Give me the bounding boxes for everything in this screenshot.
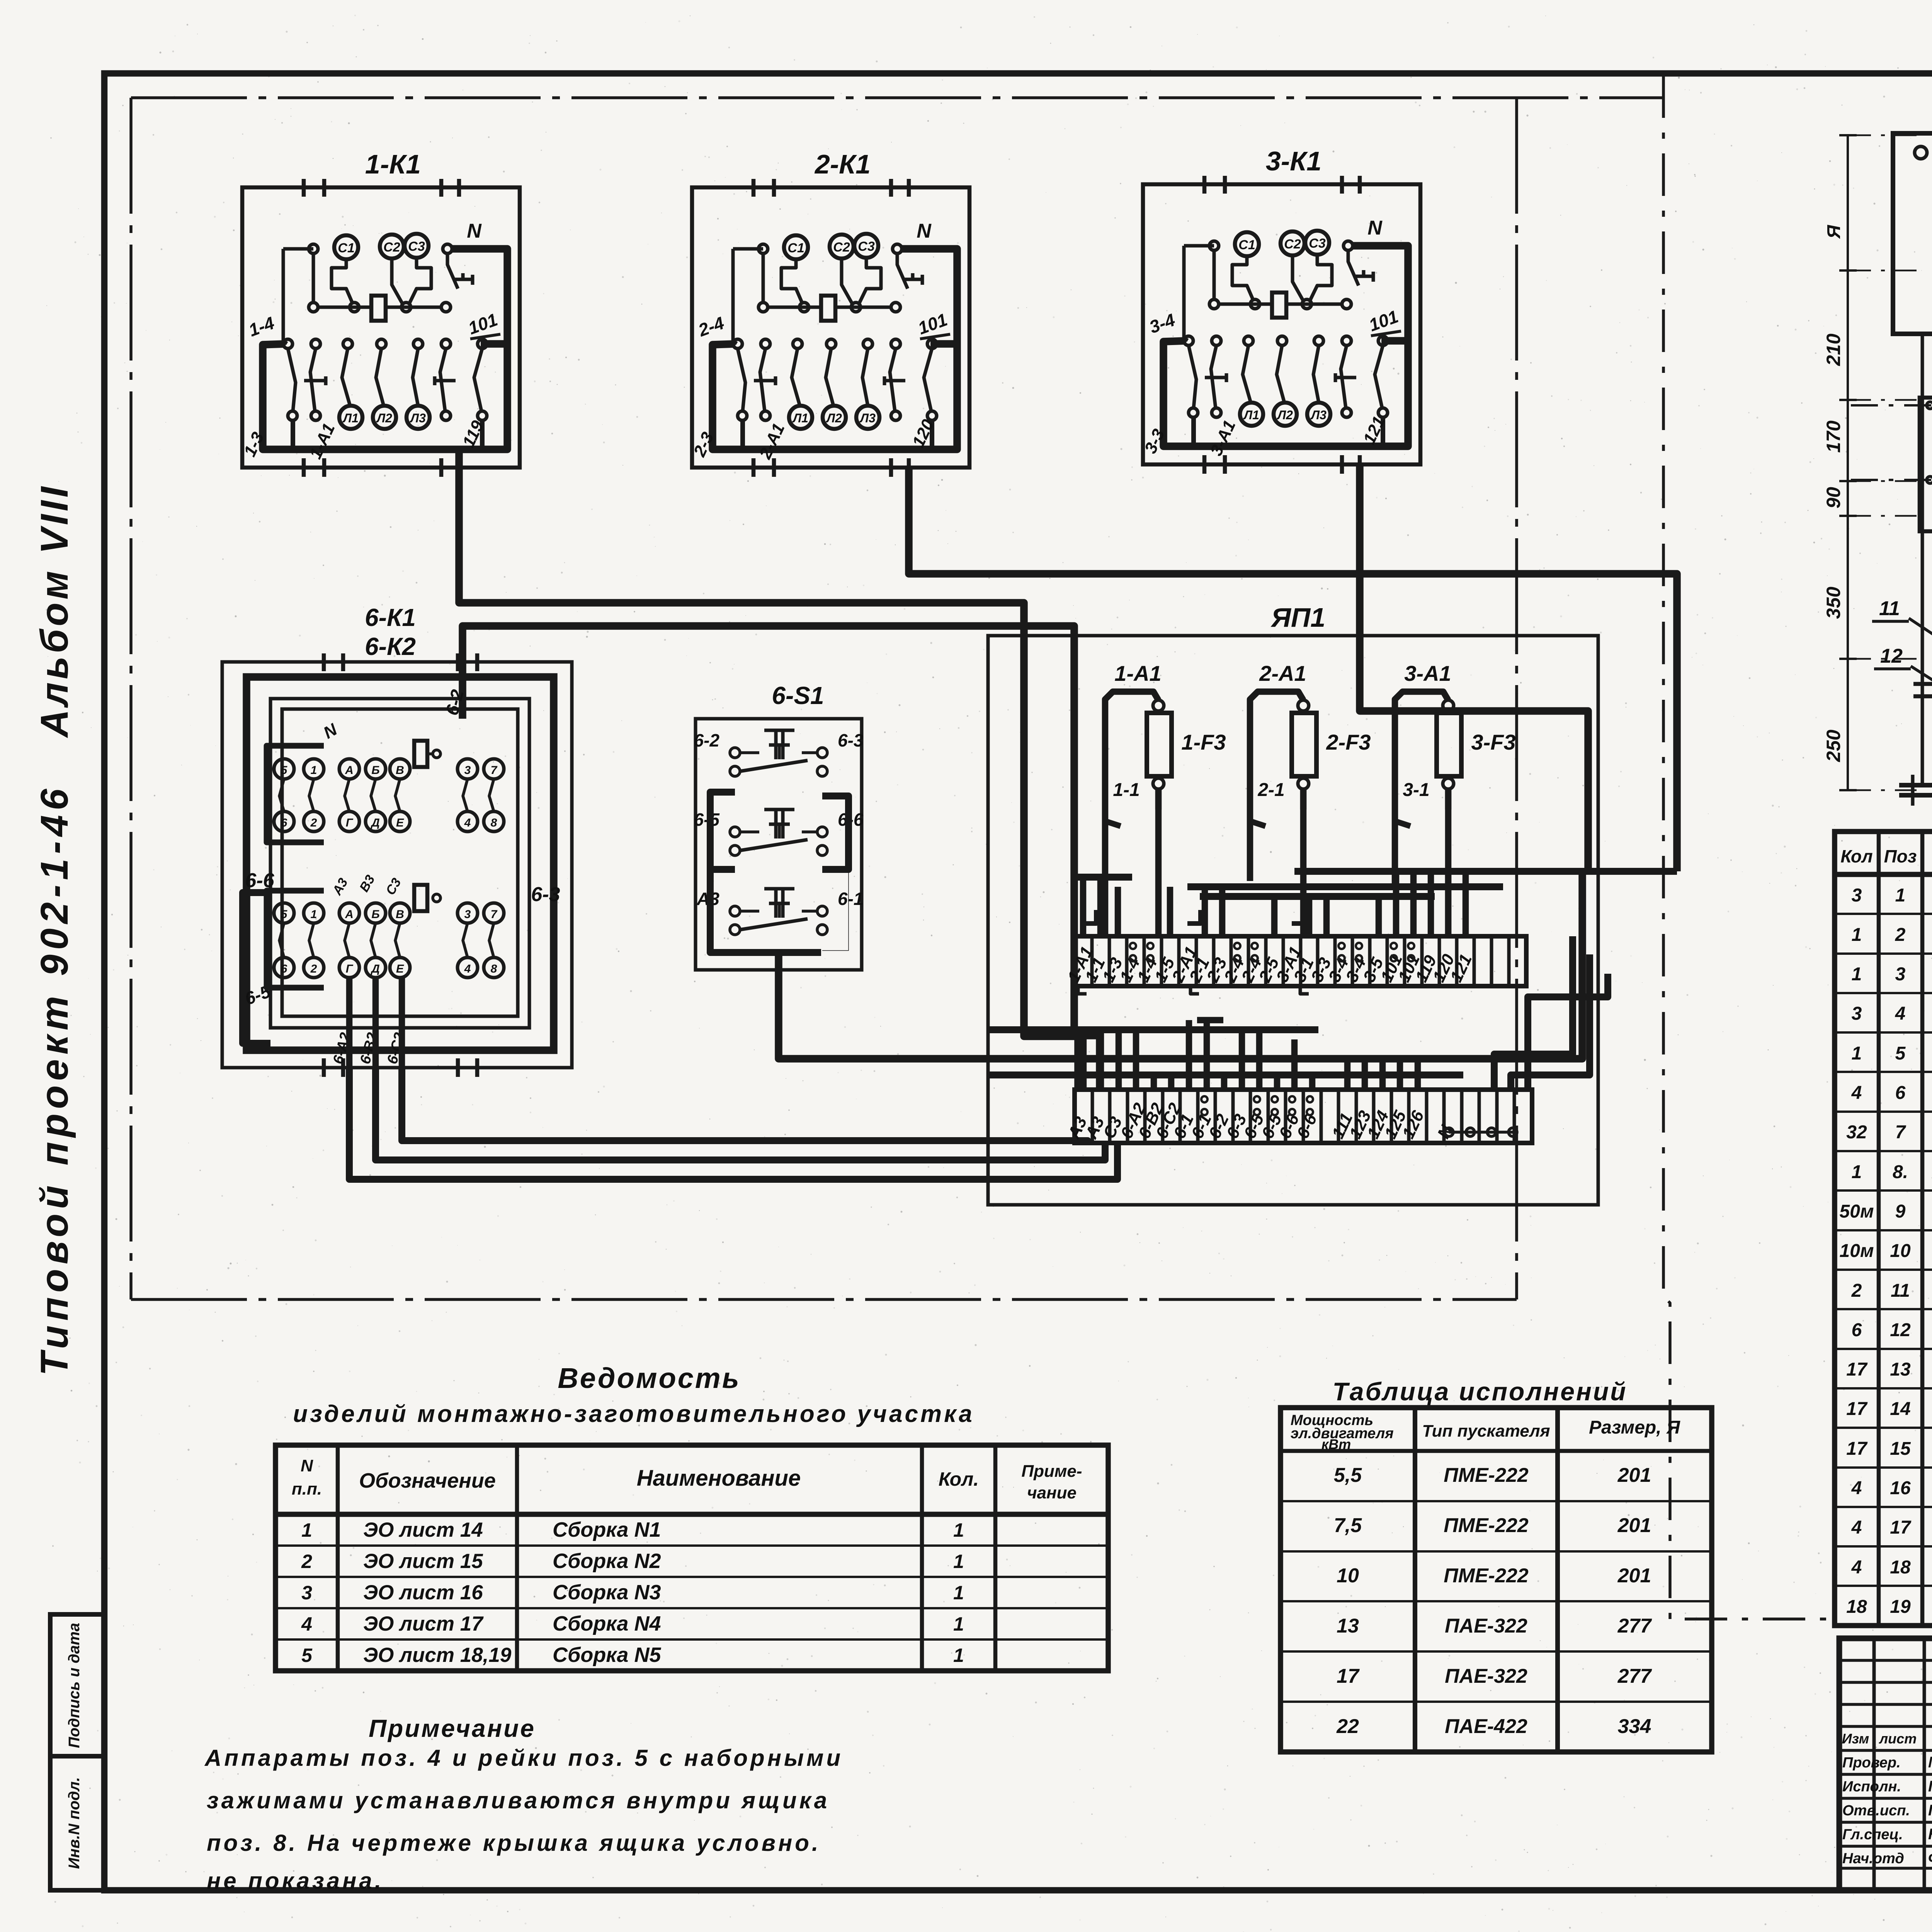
svg-text:1: 1 [953,1645,964,1666]
svg-text:18: 18 [1846,1597,1867,1617]
svg-text:2: 2 [310,963,317,975]
svg-text:2: 2 [301,1551,312,1572]
svg-text:Сборка N1: Сборка N1 [553,1518,661,1541]
auxiliary contact N of 2-К1 [897,253,908,289]
wire bus group lower [988,936,1608,1090]
svg-text:Сборка N4: Сборка N4 [553,1612,661,1635]
svg-text:Фролов: Фролов [1928,1850,1932,1867]
wires fuses to terminal strip [1105,789,1448,936]
svg-text:ПМЕ-222: ПМЕ-222 [1444,1514,1529,1537]
svg-text:Г: Г [346,963,354,975]
magnetic starter 6-К1 6-К2 [222,604,572,1077]
svg-text:В: В [396,764,404,777]
svg-text:6: 6 [281,816,287,829]
phase terminals С1 С2 С3 of 1-К1 [334,235,358,259]
svg-text:5: 5 [281,908,288,921]
svg-text:4: 4 [1895,1003,1906,1024]
svg-text:201: 201 [1617,1514,1651,1537]
phase terminals С1 С2 С3 of 3-К1 [1235,232,1259,256]
svg-text:210: 210 [1823,333,1844,366]
magnetic starter 2-К1 [690,149,969,477]
magnetic starter 3-К1 [1141,146,1420,474]
svg-text:6: 6 [281,963,287,975]
svg-text:1-А1: 1-А1 [1114,661,1161,685]
svg-text:Размер, Я: Размер, Я [1589,1417,1680,1438]
svg-text:13: 13 [1890,1359,1911,1380]
svg-text:Тип пускателя: Тип пускателя [1422,1422,1550,1440]
svg-text:Л1: Л1 [342,411,359,425]
svg-text:С2: С2 [1284,237,1301,252]
svg-text:1: 1 [1852,1043,1862,1064]
svg-text:4: 4 [1851,1517,1862,1538]
svg-text:Обозначение: Обозначение [359,1469,496,1492]
svg-text:Приме-: Приме- [1021,1462,1082,1481]
magnetic starter 1-К1 [240,149,520,477]
svg-text:ЯП1: ЯП1 [1270,602,1325,633]
internal bus wire of 3-К1 [1163,246,1408,446]
svg-text:Типовой проект 902-1-46: Типовой проект 902-1-46 [33,784,76,1376]
svg-text:277: 277 [1617,1615,1652,1637]
svg-text:2-1: 2-1 [1257,780,1284,800]
svg-text:Л3: Л3 [410,411,426,425]
svg-text:Подпись и дата: Подпись и дата [66,1623,83,1748]
svg-text:17: 17 [1846,1359,1868,1380]
svg-text:ЭО лист 18,19: ЭО лист 18,19 [363,1644,512,1667]
svg-text:Б: Б [371,764,379,777]
svg-text:11: 11 [1879,597,1900,620]
coil 6-К2 [414,885,427,911]
coil of contactor 3-К1 [1272,293,1286,318]
coil of contactor 2-К1 [821,296,835,321]
svg-text:1-К1: 1-К1 [365,149,421,179]
schematic area frame [131,98,1663,1299]
svg-text:6: 6 [1852,1320,1862,1340]
upper contact group 6-К1 [274,759,294,779]
svg-text:12: 12 [1890,1320,1911,1340]
svg-text:7,5: 7,5 [1334,1514,1362,1537]
svg-text:3: 3 [1852,1003,1862,1024]
svg-text:С2: С2 [833,240,850,255]
assembly view starter boxes [1893,133,1932,334]
svg-text:2-К1: 2-К1 [814,149,871,179]
svg-text:2: 2 [1851,1281,1862,1301]
svg-text:5: 5 [281,764,288,777]
svg-text:Сборка N3: Сборка N3 [553,1581,661,1604]
svg-text:4: 4 [1851,1083,1862,1103]
svg-text:6-3: 6-3 [531,883,560,906]
internal bus wire of 1-К1 [263,249,507,449]
left margin stamp boxes [50,1614,104,1890]
svg-text:Л1: Л1 [1243,408,1259,422]
svg-text:12: 12 [1880,645,1903,667]
svg-text:С1: С1 [338,241,354,255]
svg-text:16: 16 [1890,1478,1911,1498]
svg-text:3: 3 [1895,964,1906,985]
svg-text:3-1: 3-1 [1403,780,1429,800]
fuse 1-F3 [1105,661,1226,826]
fuse 3-F3 [1395,661,1516,826]
svg-text:1: 1 [953,1582,964,1604]
svg-text:Педан: Педан [1928,1778,1932,1795]
svg-text:зажимами устанавливаются вну: зажимами устанавливаются внутри ящика [207,1787,830,1813]
terminal strip XT1 [1064,936,1526,994]
wire bus group upper [1074,871,1677,936]
versions table [1281,1408,1712,1752]
svg-text:1: 1 [1852,925,1862,945]
svg-text:17: 17 [1337,1665,1360,1687]
svg-text:А: А [345,908,354,921]
mounting rails [1899,330,1932,806]
svg-text:С3: С3 [858,239,875,254]
svg-text:кВт: кВт [1321,1436,1351,1452]
svg-text:Нач.отд: Нач.отд [1842,1850,1904,1867]
svg-text:не показана.: не показана. [207,1868,384,1894]
svg-text:201: 201 [1617,1565,1651,1587]
svg-text:Пономарева: Пономарева [1928,1802,1932,1819]
svg-text:лист: лист [1879,1731,1917,1747]
svg-text:Наименование: Наименование [637,1466,801,1491]
svg-text:Б: Б [371,908,379,921]
svg-text:ПМЕ-222: ПМЕ-222 [1444,1565,1529,1587]
wire segments inside 3-К1 [1184,244,1214,248]
svg-text:поз. 8. На чертеже крышка: поз. 8. На чертеже крышка ящика условно. [207,1830,821,1856]
svg-text:4: 4 [301,1613,312,1635]
svg-text:Л1: Л1 [792,411,808,425]
svg-text:Провер.: Провер. [1842,1755,1901,1771]
svg-text:50м: 50м [1840,1201,1874,1222]
auxiliary contact N of 1-К1 [447,253,458,289]
svg-text:13: 13 [1337,1615,1359,1637]
svg-text:ПМЕ-222: ПМЕ-222 [1444,1464,1529,1486]
svg-text:А: А [345,764,354,777]
wires 6-К1 to terminal strip lower [349,1068,1117,1179]
svg-text:Л2: Л2 [1277,408,1293,422]
svg-text:4: 4 [464,963,471,975]
svg-text:Исполн.: Исполн. [1842,1779,1901,1795]
svg-text:3: 3 [1852,885,1862,906]
list of assembly products title [293,1362,975,1427]
svg-text:Кол.: Кол. [939,1468,979,1490]
svg-text:Поз: Поз [1884,846,1917,866]
svg-text:17: 17 [1890,1517,1912,1538]
svg-text:22: 22 [1336,1715,1359,1738]
svg-text:6-3: 6-3 [838,730,864,750]
svg-text:32: 32 [1846,1122,1867,1143]
svg-text:5,5: 5,5 [1334,1464,1362,1486]
box 6-К1 6-К2 front [1851,398,1932,531]
svg-text:9: 9 [1895,1201,1906,1222]
parts list table [1835,832,1932,1626]
section separation dash-dot line [1663,75,1835,1619]
svg-text:Отв.исп.: Отв.исп. [1842,1803,1910,1819]
svg-text:6-К1: 6-К1 [365,604,416,631]
svg-text:чание: чание [1027,1483,1077,1502]
svg-text:3: 3 [464,764,471,777]
svg-text:1: 1 [311,908,317,921]
push button contacts 6-2 6-3 [774,730,778,759]
svg-text:ЭО лист 15: ЭО лист 15 [363,1550,483,1573]
svg-text:7: 7 [491,908,498,921]
svg-text:Сборка N2: Сборка N2 [553,1549,661,1573]
svg-text:С1: С1 [787,241,804,255]
svg-text:1: 1 [953,1551,964,1572]
svg-text:4: 4 [1851,1557,1862,1578]
svg-text:N: N [917,220,932,242]
lamps Л1 Л2 Л3 of 2-К1 [789,406,812,429]
svg-text:8.: 8. [1893,1162,1908,1182]
svg-text:6-1: 6-1 [838,889,863,909]
svg-text:6: 6 [1895,1083,1906,1103]
svg-text:В: В [396,908,404,921]
pull box ЯП1 [988,602,1598,1205]
coil 6-К1 [414,741,427,767]
lamps Л1 Л2 Л3 of 3-К1 [1240,403,1263,426]
svg-text:ПАЕ-322: ПАЕ-322 [1445,1615,1527,1637]
svg-text:Л3: Л3 [1310,408,1327,422]
svg-text:1: 1 [311,764,317,777]
svg-text:Казаров: Казаров [1928,1826,1932,1843]
svg-text:10м: 10м [1840,1241,1874,1261]
wire segments inside 1-К1 [283,247,313,251]
fuse 2-F3 [1250,661,1371,826]
svg-text:8: 8 [491,816,497,829]
svg-text:п.п.: п.п. [292,1480,322,1498]
svg-text:2-F3: 2-F3 [1326,730,1371,754]
svg-text:3: 3 [464,908,471,921]
svg-text:Кол: Кол [1840,846,1872,866]
svg-text:3-К1: 3-К1 [1266,146,1321,176]
svg-text:С3: С3 [408,239,425,254]
svg-text:4: 4 [464,816,471,829]
svg-text:1-F3: 1-F3 [1181,730,1226,754]
internal bus wire of 2-К1 [713,249,957,449]
svg-text:Я: Я [1824,225,1844,240]
svg-text:90: 90 [1823,487,1844,509]
left margin vertical text [33,484,76,1376]
svg-text:Мизяк: Мизяк [1928,1754,1932,1771]
svg-text:19: 19 [1890,1597,1911,1617]
svg-text:250: 250 [1823,730,1844,762]
svg-text:18: 18 [1890,1557,1911,1578]
wire 1-К1 to assembly ЯП1 [459,449,1078,1090]
svg-text:ПАЕ-422: ПАЕ-422 [1445,1715,1527,1738]
svg-text:14: 14 [1890,1399,1910,1419]
svg-text:Д: Д [370,963,380,975]
svg-text:Примечание: Примечание [369,1714,536,1742]
svg-text:2: 2 [1895,925,1906,945]
coil of contactor 1-К1 [371,296,386,321]
svg-text:ЭО лист 16: ЭО лист 16 [363,1581,483,1604]
main contacts of 3-К1 [1184,336,1193,345]
svg-text:Д: Д [370,816,380,829]
svg-text:7: 7 [491,764,498,777]
list of assembly products table [276,1445,1108,1671]
svg-text:Г: Г [346,816,354,829]
svg-text:Ведомость: Ведомость [558,1362,740,1394]
svg-text:Сборка N5: Сборка N5 [553,1643,661,1667]
svg-text:3-F3: 3-F3 [1471,730,1515,754]
svg-text:15: 15 [1890,1439,1911,1459]
svg-text:Аппараты поз. 4 и рейки по: Аппараты поз. 4 и рейки поз. 5 с наборны… [204,1745,843,1771]
lamps Л1 Л2 Л3 of 1-К1 [339,406,362,429]
svg-text:ЭО лист 17: ЭО лист 17 [363,1612,484,1635]
svg-text:Таблица исполнений: Таблица исполнений [1333,1377,1628,1406]
terminal strip XT2 [1064,1090,1532,1143]
left dimension chain [1823,135,1917,790]
svg-text:Л3: Л3 [859,411,876,425]
svg-text:7: 7 [1895,1122,1906,1143]
note text [204,1714,843,1894]
svg-text:11: 11 [1891,1281,1910,1301]
svg-text:334: 334 [1618,1715,1651,1738]
svg-text:Е: Е [396,816,404,829]
svg-text:Инв.N подл.: Инв.N подл. [66,1777,83,1869]
svg-text:N: N [467,220,482,242]
svg-text:1: 1 [1895,885,1906,906]
svg-text:277: 277 [1617,1665,1652,1687]
svg-text:ПАЕ-322: ПАЕ-322 [1445,1665,1527,1687]
main contacts of 1-К1 [283,339,293,349]
push button contacts 6-5 6-6 [774,810,778,838]
svg-text:6-2: 6-2 [694,730,720,750]
svg-text:N: N [1367,217,1383,239]
lower contact group 6-К2 [274,903,294,923]
push button contacts А3 6-1 [774,889,778,918]
svg-text:5: 5 [1895,1043,1906,1064]
svg-text:201: 201 [1617,1464,1651,1486]
svg-text:10: 10 [1337,1565,1359,1587]
svg-text:4: 4 [1851,1478,1862,1498]
svg-text:5: 5 [301,1645,313,1666]
svg-text:С3: С3 [1309,236,1326,251]
svg-text:170: 170 [1823,420,1844,453]
versions table title [1333,1377,1628,1406]
svg-text:1: 1 [301,1519,312,1541]
svg-text:3-А1: 3-А1 [1404,661,1451,685]
svg-text:Л2: Л2 [376,411,392,425]
svg-text:1: 1 [1852,1162,1862,1182]
svg-text:2-А1: 2-А1 [1259,661,1306,685]
push-button station 6-S1 [694,682,864,970]
svg-text:1: 1 [953,1519,964,1541]
svg-text:6-S1: 6-S1 [772,682,824,709]
main contacts of 2-К1 [733,339,742,349]
svg-text:2: 2 [310,816,317,829]
svg-text:350: 350 [1823,587,1844,619]
svg-text:Альбом VIII: Альбом VIII [33,484,76,739]
svg-text:С1: С1 [1238,238,1255,252]
wire 2-К1 to assembly ЯП1 [909,468,1677,871]
svg-text:Л2: Л2 [826,411,842,425]
wire 6-S1 to terminal strip [779,871,1582,1059]
svg-text:С2: С2 [383,240,400,255]
svg-text:изделий монтажно-заготовитель: изделий монтажно-заготовительного участк… [293,1401,975,1427]
position leaders 11 12 [1872,597,1932,687]
svg-text:1: 1 [1852,964,1862,985]
svg-text:Е: Е [396,963,404,975]
svg-text:6-К2: 6-К2 [365,633,416,660]
svg-text:Гл.спец.: Гл.спец. [1842,1827,1903,1843]
wire segments inside 2-К1 [733,247,763,251]
wire 6-К1 control to terminal strip [463,626,1100,1090]
svg-text:10: 10 [1890,1241,1911,1261]
svg-text:17: 17 [1846,1399,1868,1419]
svg-text:N: N [301,1456,313,1475]
svg-text:3: 3 [301,1582,312,1604]
auxiliary contact N of 3-К1 [1348,250,1359,286]
phase terminals С1 С2 С3 of 2-К1 [784,235,808,259]
svg-text:Изм: Изм [1842,1731,1869,1747]
wire 3-К1 to assembly ЯП1 [1360,464,1588,871]
title block [1839,1638,1932,1890]
svg-text:1: 1 [953,1613,964,1635]
svg-text:8: 8 [491,963,497,975]
svg-text:17: 17 [1846,1439,1868,1459]
svg-text:1-1: 1-1 [1113,780,1139,800]
svg-text:ЭО лист 14: ЭО лист 14 [363,1519,483,1541]
